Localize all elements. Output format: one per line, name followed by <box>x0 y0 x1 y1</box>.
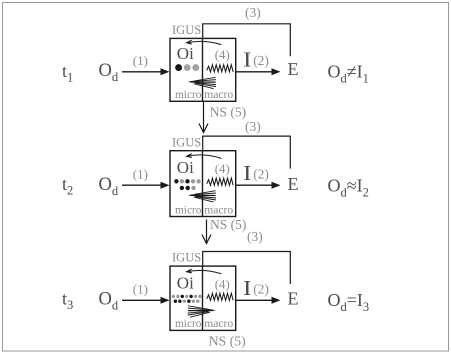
svg-text:macro: macro <box>204 317 233 330</box>
svg-text:(2): (2) <box>253 282 269 297</box>
svg-text:micro: micro <box>175 318 202 330</box>
svg-text:(2): (2) <box>253 166 269 181</box>
svg-text:E: E <box>288 59 299 79</box>
svg-text:IGUS: IGUS <box>172 23 201 37</box>
svg-text:Oi: Oi <box>177 158 194 177</box>
svg-text:(4): (4) <box>215 48 230 62</box>
svg-text:IGUS: IGUS <box>172 251 201 265</box>
svg-text:(1): (1) <box>133 53 148 68</box>
svg-text:(3): (3) <box>247 229 263 244</box>
svg-text:E: E <box>288 289 299 309</box>
svg-text:(4): (4) <box>215 162 230 176</box>
svg-text:I: I <box>243 48 252 72</box>
svg-text:NS (5): NS (5) <box>209 334 246 350</box>
svg-text:E: E <box>288 174 299 194</box>
svg-text:macro: macro <box>204 88 233 101</box>
svg-text:NS (5): NS (5) <box>210 217 246 232</box>
svg-text:(2): (2) <box>253 53 269 68</box>
svg-text:IGUS: IGUS <box>172 135 201 149</box>
svg-text:macro: macro <box>204 203 233 216</box>
svg-text:NS (5): NS (5) <box>210 105 246 120</box>
svg-text:(1): (1) <box>133 167 148 182</box>
svg-text:I: I <box>243 276 252 300</box>
svg-text:(3): (3) <box>245 119 261 134</box>
svg-text:Oi: Oi <box>177 274 194 293</box>
svg-text:(4): (4) <box>215 278 230 292</box>
svg-text:Oi: Oi <box>177 44 194 63</box>
svg-text:micro: micro <box>175 89 202 101</box>
svg-text:(3): (3) <box>245 5 261 20</box>
svg-text:I: I <box>243 161 252 185</box>
svg-text:(1): (1) <box>133 282 148 297</box>
svg-text:micro: micro <box>175 204 202 216</box>
